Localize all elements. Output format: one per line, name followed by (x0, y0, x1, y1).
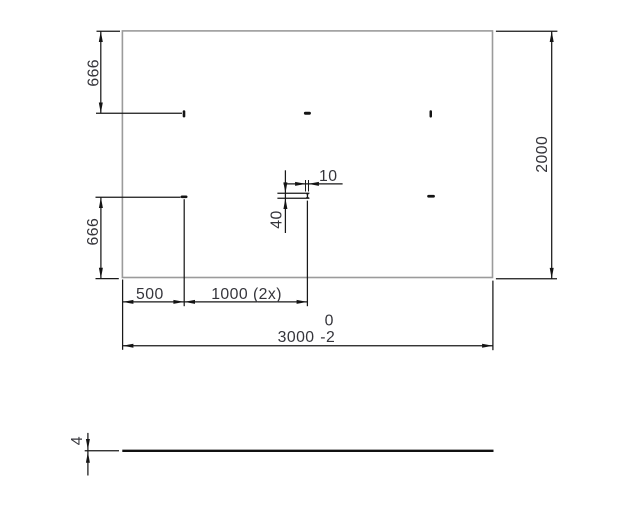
slot mid-right (horizontal) (427, 195, 435, 198)
dimension 40: arrow down (283, 182, 287, 193)
dimension 10: extension tick right (308, 180, 310, 191)
svg-text:3000: 3000 (278, 329, 315, 346)
dimension 1000 (2x): dimension line (184, 301, 307, 303)
svg-text:2000: 2000 (534, 136, 551, 173)
dimension 3000 -2/0: extension line right (plate edge extended) (492, 281, 494, 351)
dimension 4: text (69, 436, 86, 445)
svg-text:4: 4 (69, 436, 86, 445)
dimension 500: extension line right (slot column) (183, 199, 185, 306)
dimension 666 top: arrow up (99, 31, 103, 42)
dimension 3000 -2/0: arrow right (482, 344, 493, 348)
dimension 40: extension line upper (277, 192, 309, 194)
dimension 10: arrow pointing left (308, 182, 319, 186)
dimension 500: text (136, 286, 164, 303)
dimension 1000 (2x): arrow left (184, 300, 195, 304)
dimension 666 top: arrow down (99, 103, 103, 114)
dimension 4: arrow down (86, 439, 90, 450)
svg-text:10: 10 (319, 168, 337, 185)
dimension 666 bottom: arrow up (99, 197, 103, 208)
dimension 4: arrow up (86, 452, 90, 463)
slot top-left (vertical) (183, 110, 186, 117)
svg-text:0: 0 (325, 313, 334, 330)
dimension 1000 (2x): arrow right (297, 300, 308, 304)
dimension 3000 -2/0: text value (278, 329, 315, 346)
dimension 666 top: dimension line (100, 31, 102, 113)
dimension 40: dimension line (284, 170, 286, 233)
slot center (vertical, dimensioned 10x40) (306, 193, 308, 199)
dimension 3000 -2/0: dimension line (123, 345, 493, 347)
plate outline (front view 3000x2000) (122, 31, 492, 278)
dimension 500: dimension line (123, 301, 185, 303)
slot mid-left (horizontal) (181, 196, 188, 199)
slot top-right (vertical) (430, 110, 433, 117)
dimension 2000: extension line top (496, 30, 558, 32)
dimension 40: extension line lower (277, 197, 309, 199)
dimension 500: arrow left (123, 300, 134, 304)
svg-text:666: 666 (85, 218, 102, 246)
dimension 40: arrow up (283, 198, 287, 209)
dimension 666 bottom: extension line at second slot row (96, 196, 181, 198)
dimension 40: text (268, 210, 285, 228)
dimension 4: extension line (85, 450, 119, 452)
dimension 2000: extension line bottom (496, 278, 557, 280)
slot top-middle (horizontal) (304, 112, 311, 115)
dimension 4: dimension line (87, 433, 89, 476)
dimension 666 bottom: extension line at plate bottom (96, 278, 119, 280)
dimension 2000: arrow up (550, 31, 554, 42)
dimension 666 bottom: dimension line (100, 197, 102, 278)
svg-text:1000 (2x): 1000 (2x) (211, 286, 282, 303)
dimension 666 bottom: text (85, 218, 102, 246)
dimension 2000: text (534, 136, 551, 173)
svg-text:40: 40 (268, 210, 285, 228)
dimension 666 top: text (86, 59, 103, 87)
dimension 1000 (2x): text (211, 286, 282, 303)
side view plate edge (thick line) (122, 450, 493, 452)
dimension 10: arrow pointing right (295, 182, 306, 186)
dimension 3000 -2/0: tolerance lower -2 (320, 329, 335, 346)
dimension 3000 -2/0: arrow left (123, 344, 134, 348)
dimension 500: arrow right (173, 300, 184, 304)
dimension 2000: dimension line (551, 31, 553, 279)
dimension 1000 (2x): extension line right (center slot column) (306, 201, 308, 307)
dimension 3000 -2/0: tolerance upper 0 (325, 313, 334, 330)
svg-text:-2: -2 (320, 329, 335, 346)
dimension 10: dimension line (284, 183, 343, 185)
dimension 666 top: extension line at plate top (97, 30, 121, 32)
dimension 666 bottom: arrow down (99, 268, 103, 279)
dimension 666 top: extension line at first slot row (96, 112, 182, 114)
svg-text:500: 500 (136, 286, 164, 303)
dimension 10: extension tick left (305, 180, 307, 191)
dimension 500: extension line left (plate edge extended) (122, 280, 124, 350)
dimension 10: text (319, 168, 337, 185)
svg-text:666: 666 (86, 59, 103, 87)
dimension 2000: arrow down (550, 268, 554, 279)
